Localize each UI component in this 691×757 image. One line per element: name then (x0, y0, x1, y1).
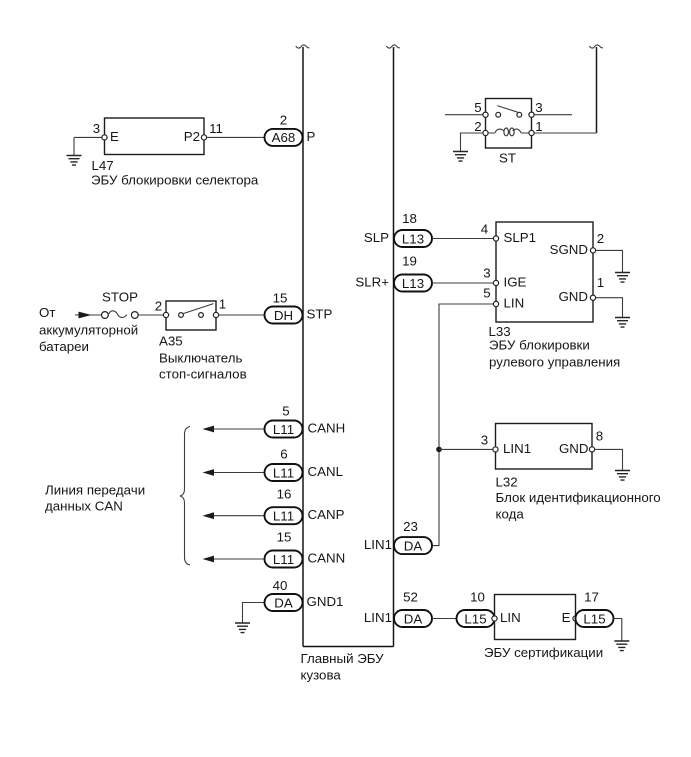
pin number 11 (209, 121, 223, 136)
svg-text:DA: DA (274, 595, 293, 610)
svg-text:CANN: CANN (308, 551, 346, 566)
wire DA 52 to L15 (432, 618, 457, 620)
svg-text:стоп-сигналов: стоп-сигналов (159, 367, 247, 382)
svg-text:E: E (110, 129, 119, 144)
pin 2 circle (483, 130, 488, 135)
svg-text:STOP: STOP (102, 290, 138, 305)
svg-text:8: 8 (596, 429, 603, 444)
switch A35 box (166, 301, 216, 330)
svg-text:GND: GND (559, 441, 589, 456)
pin number 15 (CANN) (277, 530, 292, 545)
relay ST box (486, 99, 532, 149)
pin name LIN1 (DA 23) (364, 537, 392, 552)
pin name GND (L33) (558, 289, 588, 304)
svg-text:15: 15 (273, 291, 288, 306)
wire SGND to ground (596, 250, 623, 272)
wire SLR+ to L33 pin 3 (432, 282, 493, 284)
pin 3 (E) circle (102, 135, 107, 140)
svg-text:IGE: IGE (504, 275, 527, 290)
ST designator (499, 151, 516, 166)
svg-text:3: 3 (483, 266, 490, 281)
wire from ST pin 3 (534, 114, 572, 116)
pin number 1 (A35) (219, 297, 226, 312)
relay coil (ST) (488, 128, 529, 136)
pin name LIN1 (DA 52) (364, 610, 392, 625)
main body ECU left edge (bus) (302, 47, 304, 647)
CANH arrow wire (203, 426, 265, 433)
pin number 3 (93, 121, 100, 136)
pin number 3 (L32) (481, 433, 488, 448)
pin 2 circle (A35) (163, 312, 168, 317)
svg-text:L47: L47 (92, 158, 114, 173)
pin name CANN (308, 551, 346, 566)
svg-text:40: 40 (273, 578, 288, 593)
ground (L32) (615, 471, 630, 481)
svg-text:DA: DA (404, 611, 423, 626)
pin number 3 (IGE) (483, 266, 490, 281)
ECU L47 box (105, 118, 205, 155)
pin name SLP (364, 230, 389, 245)
svg-text:5: 5 (474, 100, 481, 115)
pin 1 circle (529, 130, 534, 135)
pin number 5 (CANH) (282, 404, 289, 419)
svg-text:Блок идентификационного: Блок идентификационного (496, 490, 661, 505)
pin name IGE (504, 275, 527, 290)
ECU L32 box (496, 424, 593, 470)
svg-text:данных CAN: данных CAN (45, 499, 123, 514)
A35 designator (159, 334, 183, 349)
switch contact circles (ST) (496, 112, 522, 117)
pin number 5 (LIN) (483, 286, 490, 301)
svg-text:3: 3 (93, 121, 100, 136)
connector DA (LIN1 pin 52) (394, 610, 432, 627)
pin number 5 (474, 100, 481, 115)
pin circle E (cert) (573, 616, 578, 621)
svg-text:L11: L11 (273, 465, 294, 480)
L33 designator (489, 324, 511, 339)
svg-text:23: 23 (403, 519, 418, 534)
svg-text:LIN1: LIN1 (364, 610, 392, 625)
pin name LIN1 (L32) (503, 441, 531, 456)
main body ECU bottom edge (303, 646, 394, 648)
svg-text:1: 1 (535, 119, 542, 134)
wire L33 LIN to vertical LIN net (432, 304, 493, 546)
svg-text:LIN1: LIN1 (503, 441, 531, 456)
pin number 2 (A68) (280, 113, 287, 128)
svg-text:3: 3 (481, 433, 488, 448)
certification ECU box (495, 595, 576, 640)
svg-text:4: 4 (481, 222, 488, 237)
pin 8 circle (GND L32) (589, 447, 594, 452)
svg-text:SLR+: SLR+ (355, 275, 389, 290)
wire fuse to A35 pin 2 (138, 314, 163, 316)
svg-text:L11: L11 (273, 552, 294, 567)
pin name E (cert) (562, 610, 571, 625)
pin name CANL (308, 464, 343, 479)
svg-text:От: От (39, 305, 55, 320)
svg-text:кузова: кузова (301, 668, 342, 683)
pin number 1 (GND) (597, 275, 604, 290)
svg-text:P2: P2 (184, 129, 200, 144)
svg-text:2: 2 (280, 113, 287, 128)
pin number 17 (584, 590, 599, 605)
pin name STP (307, 307, 333, 322)
pin 3 circle (529, 112, 534, 117)
pin 4 circle (SLP1) (493, 236, 498, 241)
pin number 6 (CANL) (280, 447, 287, 462)
connector DH (265, 307, 303, 324)
svg-text:10: 10 (470, 590, 485, 605)
svg-text:A35: A35 (159, 334, 183, 349)
wire SLP to L33 pin 4 (432, 238, 493, 240)
wire P2 to connector A68 (207, 136, 265, 138)
svg-text:LIN1: LIN1 (364, 537, 392, 552)
pin 11 (P2) circle (201, 135, 206, 140)
pin number 10 (470, 590, 485, 605)
svg-text:SLP: SLP (364, 230, 389, 245)
pin number 3 (535, 100, 542, 115)
pin number 15 (DH) (273, 291, 288, 306)
svg-text:аккумуляторной: аккумуляторной (39, 323, 138, 338)
svg-text:CANL: CANL (308, 464, 343, 479)
svg-text:ST: ST (499, 151, 516, 166)
wire L15 17 to ground (614, 619, 622, 641)
svg-text:Главный ЭБУ: Главный ЭБУ (301, 651, 385, 666)
connector L13 (SLP) (394, 230, 432, 247)
pin number 2 (SGND) (597, 231, 604, 246)
svg-text:L13: L13 (402, 276, 424, 291)
svg-text:GND1: GND1 (307, 594, 344, 609)
pin 1 circle (GND) (590, 295, 595, 300)
pin number 52 (403, 590, 418, 605)
ground (GND1) (235, 623, 250, 633)
svg-text:1: 1 (597, 275, 604, 290)
ground (SGND) (615, 273, 630, 283)
pin 1 circle (A35) (213, 312, 218, 317)
svg-text:L11: L11 (273, 422, 294, 437)
switch contact circles (A35) (179, 313, 204, 318)
ground (ST pin 2) (453, 152, 468, 162)
pin name LIN (cert) (500, 610, 521, 625)
wire junction to L32 pin 3 (439, 448, 493, 450)
ST feed vertical wire (596, 47, 598, 133)
CANP arrow wire (203, 512, 265, 519)
svg-text:5: 5 (483, 286, 490, 301)
wire A35 pin 1 to connector DH (219, 314, 264, 316)
pin name SLR+ (355, 275, 389, 290)
connector A68 (265, 129, 303, 146)
fuse label STOP (102, 290, 138, 305)
svg-text:CANP: CANP (308, 507, 345, 522)
certification ECU label (484, 645, 603, 660)
wire into ST pin 5 (445, 114, 483, 116)
L47 description (91, 173, 259, 188)
connector L15 (pin 10) (457, 610, 495, 627)
break symbol on left bus (296, 45, 310, 48)
pin 5 circle (LIN) (493, 301, 498, 306)
svg-text:L15: L15 (583, 611, 605, 626)
connector L11 (CANN) (265, 551, 303, 568)
svg-text:LIN: LIN (500, 610, 521, 625)
wire L32 GND to ground (595, 449, 623, 470)
svg-text:GND: GND (558, 289, 588, 304)
svg-text:DH: DH (274, 308, 293, 323)
pin name SGND (550, 242, 588, 257)
svg-text:L15: L15 (464, 611, 486, 626)
pin name SLP1 (504, 230, 537, 245)
connector DA (LIN1 pin 23) (394, 537, 432, 554)
svg-text:2: 2 (474, 119, 481, 134)
svg-text:3: 3 (535, 100, 542, 115)
junction LIN net (436, 447, 442, 453)
pin number 8 (596, 429, 603, 444)
svg-text:Линия передачи: Линия передачи (45, 483, 145, 498)
svg-text:кода: кода (496, 507, 525, 522)
svg-text:CANH: CANH (308, 421, 346, 436)
CAN group brace (180, 427, 190, 566)
pin number 4 (481, 222, 488, 237)
connector L11 (CANP) (265, 507, 303, 524)
svg-text:15: 15 (277, 530, 292, 545)
pin 2 circle (SGND) (590, 248, 595, 253)
connector L11 (CANL) (265, 464, 303, 481)
L32 description (496, 490, 661, 522)
ground (L47 pin E) (67, 137, 82, 165)
svg-text:6: 6 (280, 447, 287, 462)
svg-text:P: P (307, 129, 316, 144)
pin name LIN (504, 296, 525, 311)
wire ST pin 1 to feed (534, 132, 596, 134)
L47 designator (92, 158, 114, 173)
pin name GND (L32) (559, 441, 589, 456)
pin 3 circle (IGE) (493, 280, 498, 285)
svg-text:L13: L13 (402, 231, 424, 246)
svg-text:ЭБУ сертификации: ЭБУ сертификации (484, 645, 603, 660)
svg-text:Выключатель: Выключатель (159, 351, 243, 366)
battery feed label (39, 305, 138, 354)
pin number 1 (535, 119, 542, 134)
ground (GND L33) (615, 318, 630, 328)
svg-text:19: 19 (402, 254, 417, 269)
svg-text:ЭБУ блокировки: ЭБУ блокировки (489, 338, 590, 353)
svg-text:5: 5 (282, 404, 289, 419)
svg-text:L32: L32 (496, 475, 518, 490)
connector L13 (SLR+) (394, 275, 432, 292)
svg-text:DA: DA (404, 538, 423, 553)
connector L15 (pin 17) (576, 610, 614, 627)
pin number 16 (CANP) (277, 487, 292, 502)
svg-text:17: 17 (584, 590, 599, 605)
svg-text:SLP1: SLP1 (504, 230, 537, 245)
wire GND to ground (596, 298, 623, 318)
svg-text:рулевого управления: рулевого управления (489, 355, 620, 370)
pin 3 circle (LIN1) (493, 447, 498, 452)
connector DA (GND1) (265, 594, 303, 611)
pin name E (110, 129, 119, 144)
svg-text:SGND: SGND (550, 242, 588, 257)
break symbol on right bus (386, 45, 400, 48)
pin circle LIN (cert) (492, 616, 497, 621)
L32 designator (496, 475, 518, 490)
switch blade (ST) (497, 106, 517, 113)
svg-text:1: 1 (219, 297, 226, 312)
ECU L33 box (496, 222, 593, 322)
A35 description (159, 351, 247, 382)
ground (cert E) (614, 641, 629, 651)
fuse STOP (102, 311, 139, 319)
pin name CANP (308, 507, 345, 522)
pin number 2 (A35) (155, 299, 162, 314)
svg-text:A68: A68 (272, 130, 296, 145)
CANN arrow wire (203, 556, 265, 563)
pin number 2 (474, 119, 481, 134)
pin name CANH (308, 421, 346, 436)
battery feed arrow (75, 312, 101, 319)
pin name P (307, 129, 316, 144)
svg-text:16: 16 (277, 487, 292, 502)
wire connector DA to ground (243, 603, 265, 623)
connector L11 (CANH) (265, 421, 303, 438)
svg-text:LIN: LIN (504, 296, 525, 311)
pin 5 circle (483, 112, 488, 117)
svg-text:18: 18 (402, 211, 417, 226)
svg-text:2: 2 (597, 231, 604, 246)
pin number 40 (GND1) (273, 578, 288, 593)
svg-text:2: 2 (155, 299, 162, 314)
svg-text:11: 11 (209, 121, 223, 136)
pin number 18 (SLP) (402, 211, 417, 226)
CANL arrow wire (203, 469, 265, 476)
switch blade (A35) (183, 304, 213, 314)
svg-text:STP: STP (307, 307, 333, 322)
svg-text:52: 52 (403, 590, 418, 605)
svg-text:батареи: батареи (39, 339, 89, 354)
svg-text:L11: L11 (273, 509, 294, 524)
break symbol on ST feed wire (589, 45, 603, 48)
svg-text:E: E (562, 610, 571, 625)
pin name GND1 (307, 594, 344, 609)
pin number 19 (SLR+) (402, 254, 417, 269)
wire ST pin 2 to ground (461, 133, 483, 151)
CAN group label (45, 483, 145, 514)
L33 description (489, 338, 620, 370)
wire ground to L47 pin E (74, 136, 102, 138)
main body ECU label (301, 651, 385, 683)
main body ECU right edge (bus) (393, 47, 395, 647)
svg-text:ЭБУ блокировки селектора: ЭБУ блокировки селектора (91, 173, 259, 188)
pin number 23 (403, 519, 418, 534)
pin name P2 (184, 129, 200, 144)
